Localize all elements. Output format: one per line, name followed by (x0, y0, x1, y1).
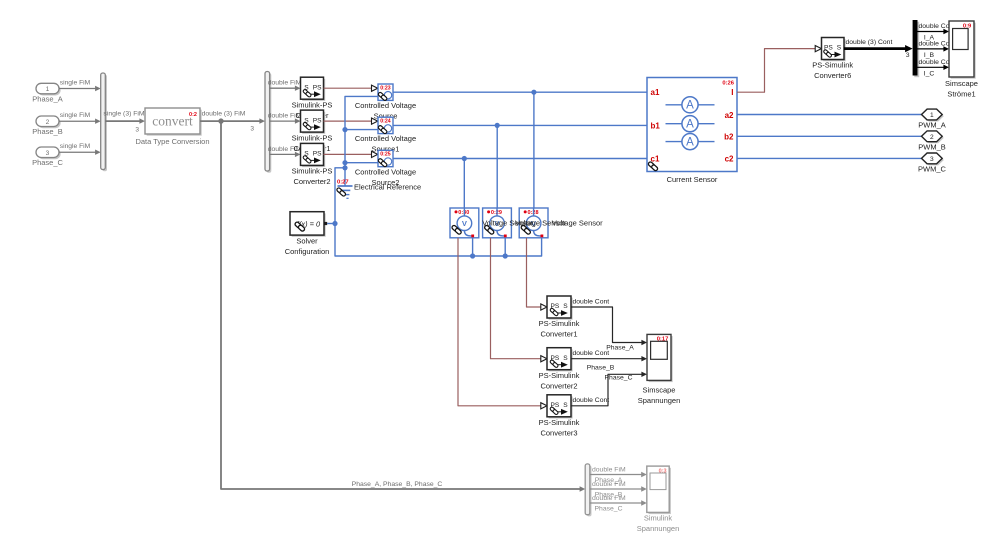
svg-text:b2: b2 (724, 133, 734, 142)
demux Demux (265, 72, 271, 173)
voltage source Source2 (355, 150, 416, 187)
svg-text:Converter6: Converter6 (814, 71, 851, 80)
svg-text:Data Type Conversion: Data Type Conversion (135, 137, 209, 146)
wire double (3) Cont bus (844, 39, 913, 59)
svg-text:a1: a1 (651, 88, 660, 97)
block Simulink-PS Converter1 (292, 110, 333, 153)
wire sensor3 measurement to PS-Simulink Converter1 (527, 238, 548, 310)
svg-text:3: 3 (930, 156, 934, 163)
svg-text:0:26: 0:26 (722, 81, 734, 87)
svg-text:double FiM: double FiM (592, 466, 626, 473)
svg-text:PWM_A: PWM_A (918, 121, 946, 130)
svg-text:Controlled Voltage: Controlled Voltage (355, 167, 416, 176)
svg-text:c2: c2 (725, 155, 734, 164)
svg-text:3: 3 (250, 126, 254, 133)
svg-text:Converter2: Converter2 (293, 177, 330, 186)
svg-text:Phase_A, Phase_B, Phase_C: Phase_A, Phase_B, Phase_C (352, 481, 443, 488)
svg-text:PS: PS (313, 84, 322, 91)
svg-text:3: 3 (135, 127, 139, 134)
svg-text:S: S (563, 355, 568, 362)
svg-text:Phase_C: Phase_C (595, 505, 623, 512)
wire phase A electrical (393, 90, 647, 208)
wire Phase_C to mux (59, 143, 101, 155)
svg-text:0:23: 0:23 (380, 85, 390, 91)
outport PWM_A (918, 109, 946, 130)
voltage sensor Voltage Sensor (450, 208, 479, 238)
svg-text:3: 3 (46, 150, 50, 157)
svg-text:0:24: 0:24 (380, 119, 390, 125)
svg-text:1: 1 (930, 112, 934, 119)
svg-text:Converter1: Converter1 (540, 330, 577, 339)
svg-text:Controlled Voltage: Controlled Voltage (355, 101, 416, 110)
block PS-Simulink Converter2 (539, 348, 580, 391)
svg-text:0:17: 0:17 (657, 337, 669, 343)
wire Converter2 to voltage source (physical) (324, 151, 378, 157)
wire Converter1 to voltage source (physical) (324, 118, 378, 124)
block Solver Configuration (285, 212, 330, 256)
wire negative bus to sensors (332, 165, 541, 258)
scope Simscape Stroeme1 (945, 21, 978, 99)
svg-text:Current Sensor: Current Sensor (667, 175, 718, 184)
svg-text:double (3) FiM: double (3) FiM (202, 110, 246, 117)
svg-text:PWM_B: PWM_B (918, 143, 946, 152)
svg-text:PS-Simulink: PS-Simulink (812, 61, 853, 70)
svg-text:Phase_C: Phase_C (605, 374, 633, 381)
svg-text:A: A (686, 119, 694, 131)
svg-text:single FiM: single FiM (60, 143, 91, 150)
svg-text:Converter3: Converter3 (540, 429, 577, 438)
ground Electrical Reference (336, 180, 421, 199)
svg-text:Phase_B: Phase_B (32, 127, 62, 136)
svg-text:Simulink-PS: Simulink-PS (292, 133, 333, 142)
svg-text:Voltage Sensor: Voltage Sensor (552, 219, 603, 228)
wire sensor1 measurement to PS-Simulink Converter3 (458, 238, 547, 409)
block Current Sensor (647, 78, 737, 185)
block PS-Simulink Converter3 (539, 395, 580, 438)
block PS-Simulink Converter6 (812, 38, 853, 81)
svg-text:PS-Simulink: PS-Simulink (539, 319, 580, 328)
svg-text:Phase_A: Phase_A (32, 95, 62, 104)
voltage source Source1 (355, 117, 416, 154)
svg-text:Electrical Reference: Electrical Reference (354, 183, 421, 192)
inport 2 Phase_B (32, 116, 62, 136)
wire solver to bus (327, 223, 335, 225)
wire double FiM branch (268, 113, 302, 124)
svg-text:single (3) FiM: single (3) FiM (103, 110, 145, 117)
svg-text:3: 3 (906, 52, 910, 59)
mux Mux1 (101, 73, 107, 171)
wire phase B electrical (393, 123, 647, 208)
wire Phase_B signal (571, 350, 647, 372)
label Voltage Sensor x3 (482, 219, 603, 228)
svg-text:convert: convert (152, 114, 193, 129)
voltage sensor Voltage Sensor2 (519, 208, 548, 238)
wire Converter to voltage source (physical) (324, 85, 378, 91)
wire PWM_C signal (737, 157, 922, 159)
svg-text:PS: PS (313, 117, 322, 124)
svg-text:double (3) Cont: double (3) Cont (846, 39, 893, 46)
wire Phase_B to scope (590, 481, 647, 499)
wire Phase_C to scope (590, 495, 647, 513)
svg-text:Ströme1: Ströme1 (947, 90, 975, 99)
wire PWM_B signal (737, 135, 922, 137)
svg-text:double Cont: double Cont (573, 298, 610, 305)
demux Demux current (913, 20, 920, 77)
svg-text:S: S (563, 303, 568, 310)
svg-text:PS-Simulink: PS-Simulink (539, 371, 580, 380)
demux Demux bottom (585, 464, 591, 517)
block Simulink-PS Converter2 (292, 143, 333, 186)
svg-text:PS-Simulink: PS-Simulink (539, 418, 580, 427)
wire I_B signal (918, 41, 956, 60)
svg-text:Spannungen: Spannungen (637, 524, 680, 533)
svg-text:A: A (686, 136, 694, 148)
svg-text:I_C: I_C (924, 71, 935, 78)
block Data Type Conversion (135, 108, 209, 146)
svg-text:PS: PS (313, 151, 322, 158)
wire Phase_A signal (571, 298, 647, 351)
wire double (3) FiM (200, 110, 265, 132)
svg-text:Simscape: Simscape (945, 79, 978, 88)
svg-text:2: 2 (46, 119, 50, 126)
inport 1 Phase_A (32, 83, 62, 103)
svg-text:Phase_B: Phase_B (587, 365, 615, 372)
svg-text:PWM_C: PWM_C (918, 165, 947, 174)
svg-text:a2: a2 (725, 111, 734, 120)
svg-text:A: A (686, 100, 694, 112)
inport 3 Phase_C (32, 147, 63, 167)
svg-text:0:3: 0:3 (659, 468, 667, 474)
svg-text:Controlled Voltage: Controlled Voltage (355, 134, 416, 143)
svg-text:Converter2: Converter2 (540, 381, 577, 390)
wire negative bus vertical (342, 96, 378, 184)
svg-text:0:27: 0:27 (337, 180, 349, 186)
svg-text:Simulink: Simulink (644, 514, 673, 523)
wire Phase_A to mux (59, 80, 101, 92)
wire Phase_A to scope (590, 466, 647, 484)
wire phase C electrical (393, 156, 647, 208)
svg-text:I: I (731, 88, 733, 97)
wire double FiM branch (268, 80, 302, 91)
block Simulink-PS Converter (292, 77, 333, 120)
svg-text:Spannungen: Spannungen (638, 396, 681, 405)
wire single (3) FiM (103, 110, 145, 133)
scope Simscape Spannungen (638, 334, 681, 405)
svg-text:S: S (837, 45, 842, 52)
svg-text:double FiM: double FiM (592, 481, 626, 488)
svg-text:double Cont: double Cont (573, 350, 610, 357)
wire double FiM branch (268, 146, 302, 157)
wire current measurement I (physical) (737, 46, 821, 93)
svg-text:single FiM: single FiM (60, 80, 91, 87)
svg-text:Configuration: Configuration (285, 247, 330, 256)
scope Simulink Spannungen (637, 466, 680, 533)
svg-text:Phase_C: Phase_C (32, 158, 63, 167)
wire Phase_C signal (571, 372, 647, 406)
svg-text:Phase_A: Phase_A (606, 345, 634, 352)
svg-text:0:2: 0:2 (189, 112, 197, 118)
svg-text:1: 1 (46, 86, 50, 93)
svg-text:Simulink-PS: Simulink-PS (292, 100, 333, 109)
wire Phase_A, Phase_B, Phase_C trunk (221, 121, 585, 492)
svg-text:b1: b1 (651, 121, 661, 130)
svg-text:double FiM: double FiM (268, 80, 302, 87)
wire PWM_A signal (737, 114, 922, 116)
voltage source Source (355, 84, 416, 121)
svg-text:0:25: 0:25 (380, 152, 390, 158)
svg-text:Simscape: Simscape (643, 385, 676, 394)
block PS-Simulink Converter1 (539, 296, 580, 339)
outport PWM_B (918, 131, 946, 152)
wire sensor2 measurement to PS-Simulink Converter2 (491, 238, 548, 362)
svg-text:2: 2 (930, 134, 934, 141)
wire I_A signal (918, 23, 956, 42)
svg-text:0:9: 0:9 (963, 23, 972, 29)
svg-text:S: S (563, 402, 568, 409)
wire I_C signal (918, 59, 956, 78)
svg-text:Simulink-PS: Simulink-PS (292, 167, 333, 176)
voltage sensor Voltage Sensor1 (483, 208, 512, 238)
svg-text:double FiM: double FiM (592, 495, 626, 502)
wire Phase_B to mux (59, 112, 101, 124)
svg-text:Solver: Solver (296, 237, 318, 246)
svg-text:single FiM: single FiM (60, 112, 91, 119)
outport PWM_C (918, 153, 947, 174)
svg-text:double Cont: double Cont (573, 397, 610, 404)
